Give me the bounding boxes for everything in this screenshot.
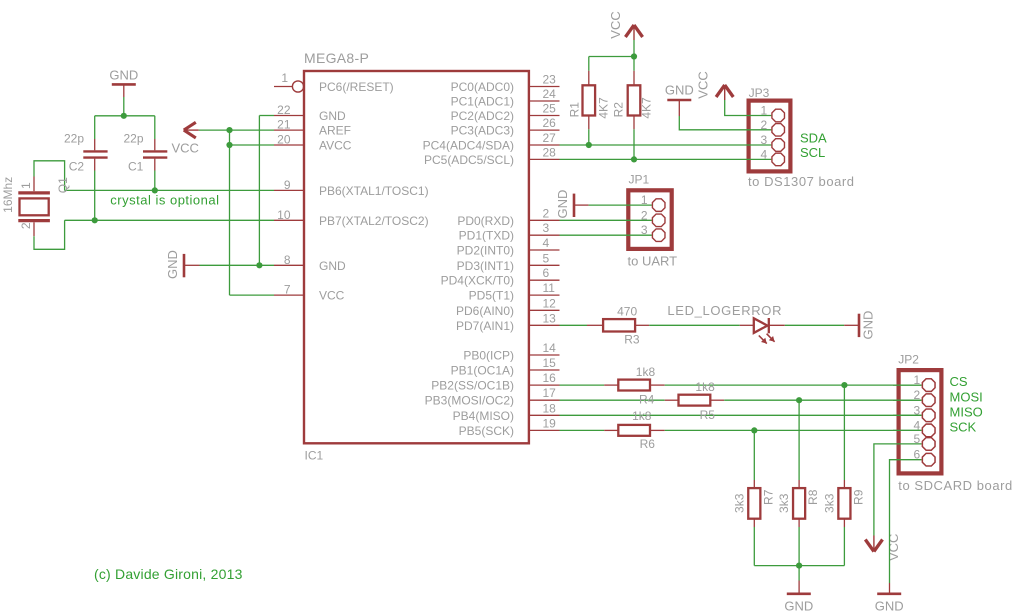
svg-text:11: 11 [543, 281, 556, 295]
svg-text:13: 13 [543, 311, 557, 325]
svg-text:VCC: VCC [886, 534, 901, 561]
svg-text:PB7(XTAL2/TOSC2): PB7(XTAL2/TOSC2) [319, 214, 429, 228]
svg-text:PD0(RXD): PD0(RXD) [457, 214, 514, 228]
svg-text:R1: R1 [568, 102, 582, 118]
svg-text:470: 470 [617, 305, 637, 319]
svg-text:R6: R6 [640, 437, 656, 451]
svg-text:VCC: VCC [608, 11, 623, 38]
svg-text:1: 1 [761, 104, 768, 118]
svg-text:22: 22 [277, 103, 291, 117]
svg-text:22p: 22p [64, 132, 84, 146]
svg-text:R2: R2 [611, 102, 625, 118]
svg-text:PD3(INT1): PD3(INT1) [457, 259, 514, 273]
svg-text:16: 16 [543, 371, 557, 385]
svg-text:3k3: 3k3 [732, 493, 746, 513]
svg-text:1: 1 [914, 373, 921, 387]
svg-text:C2: C2 [69, 160, 85, 174]
svg-text:1k8: 1k8 [695, 380, 715, 394]
svg-text:PB0(ICP): PB0(ICP) [463, 349, 514, 363]
svg-text:R7: R7 [761, 489, 775, 505]
svg-text:1: 1 [281, 71, 288, 85]
svg-text:18: 18 [543, 401, 557, 415]
svg-text:5: 5 [543, 251, 550, 265]
svg-text:R9: R9 [852, 489, 866, 505]
svg-text:GND: GND [319, 259, 346, 273]
svg-text:PB6(XTAL1/TOSC1): PB6(XTAL1/TOSC1) [319, 184, 429, 198]
svg-text:GND: GND [861, 311, 876, 340]
svg-text:(c) Davide Gironi, 2013: (c) Davide Gironi, 2013 [94, 566, 243, 582]
svg-text:R3: R3 [624, 333, 640, 347]
svg-text:PC3(ADC3): PC3(ADC3) [451, 124, 514, 138]
svg-text:SDA: SDA [800, 130, 827, 145]
svg-text:R8: R8 [806, 489, 820, 505]
svg-text:9: 9 [284, 178, 291, 192]
svg-text:PB2(SS/OC1B): PB2(SS/OC1B) [431, 379, 514, 393]
svg-text:R4: R4 [639, 393, 655, 407]
svg-text:to DS1307 board: to DS1307 board [748, 174, 855, 189]
svg-text:PD7(AIN1): PD7(AIN1) [456, 319, 514, 333]
svg-text:GND: GND [665, 83, 694, 98]
svg-text:crystal is optional: crystal is optional [110, 193, 219, 208]
svg-text:2: 2 [19, 222, 33, 229]
svg-text:22p: 22p [124, 132, 144, 146]
svg-text:10: 10 [277, 208, 291, 222]
svg-text:23: 23 [543, 73, 557, 87]
svg-text:8: 8 [284, 253, 291, 267]
svg-text:3: 3 [761, 133, 768, 147]
svg-text:1k8: 1k8 [636, 365, 656, 379]
svg-text:GND: GND [319, 109, 346, 123]
svg-text:to UART: to UART [628, 254, 678, 269]
svg-text:1: 1 [19, 182, 33, 189]
svg-text:PC2(ADC2): PC2(ADC2) [451, 109, 514, 123]
svg-text:4: 4 [761, 147, 768, 161]
svg-text:GND: GND [875, 598, 904, 613]
svg-text:LED_LOGERROR: LED_LOGERROR [667, 303, 782, 318]
svg-text:16Mhz: 16Mhz [1, 177, 15, 213]
svg-text:AREF: AREF [319, 124, 351, 138]
svg-text:7: 7 [284, 283, 291, 297]
svg-text:PD5(T1): PD5(T1) [469, 289, 514, 303]
svg-text:SCL: SCL [800, 145, 825, 160]
svg-text:20: 20 [277, 133, 291, 147]
svg-text:15: 15 [543, 356, 557, 370]
svg-text:SCK: SCK [950, 420, 977, 435]
svg-text:PD2(INT0): PD2(INT0) [457, 244, 514, 258]
svg-text:2: 2 [543, 206, 550, 220]
svg-text:MISO: MISO [950, 404, 983, 419]
svg-text:PB5(SCK): PB5(SCK) [459, 424, 514, 438]
svg-text:3: 3 [641, 223, 648, 237]
svg-text:GND: GND [109, 68, 138, 83]
svg-text:2: 2 [761, 118, 768, 132]
svg-text:GND: GND [555, 190, 570, 219]
svg-text:PC5(ADC5/SCL): PC5(ADC5/SCL) [424, 153, 514, 167]
svg-text:PB3(MOSI/OC2): PB3(MOSI/OC2) [425, 394, 514, 408]
svg-text:PC0(ADC0): PC0(ADC0) [451, 80, 514, 94]
svg-text:CS: CS [950, 374, 968, 389]
svg-text:4K7: 4K7 [640, 97, 654, 119]
svg-text:IC1: IC1 [305, 449, 324, 463]
svg-text:2: 2 [641, 208, 648, 222]
svg-text:PC6(/RESET): PC6(/RESET) [319, 80, 394, 94]
svg-text:PC1(ADC1): PC1(ADC1) [451, 95, 514, 109]
svg-text:28: 28 [543, 145, 557, 159]
svg-text:Q1: Q1 [56, 177, 70, 193]
svg-text:12: 12 [543, 296, 557, 310]
svg-text:3k3: 3k3 [777, 493, 791, 513]
svg-text:AVCC: AVCC [319, 139, 352, 153]
svg-text:3: 3 [543, 221, 550, 235]
svg-text:4K7: 4K7 [597, 97, 611, 119]
svg-text:R5: R5 [700, 408, 716, 422]
svg-text:MEGA8-P: MEGA8-P [304, 50, 369, 66]
svg-text:JP3: JP3 [749, 86, 770, 100]
svg-text:24: 24 [543, 87, 557, 101]
svg-text:6: 6 [543, 266, 550, 280]
svg-text:1k8: 1k8 [632, 409, 652, 423]
svg-text:3: 3 [914, 403, 921, 417]
svg-text:VCC: VCC [319, 289, 345, 303]
svg-text:PB4(MISO): PB4(MISO) [453, 409, 514, 423]
svg-text:GND: GND [165, 250, 180, 279]
svg-text:to SDCARD board: to SDCARD board [898, 478, 1012, 493]
svg-text:4: 4 [543, 236, 550, 250]
svg-text:JP1: JP1 [629, 173, 650, 187]
svg-text:25: 25 [543, 102, 557, 116]
svg-text:PD4(XCK/T0): PD4(XCK/T0) [441, 274, 514, 288]
svg-text:14: 14 [543, 341, 557, 355]
svg-text:PD1(TXD): PD1(TXD) [459, 229, 514, 243]
svg-text:PD6(AIN0): PD6(AIN0) [456, 304, 514, 318]
svg-text:PB1(OC1A): PB1(OC1A) [451, 364, 514, 378]
svg-text:26: 26 [543, 116, 557, 130]
svg-text:3k3: 3k3 [823, 493, 837, 513]
svg-text:21: 21 [277, 118, 291, 132]
svg-text:2: 2 [914, 388, 921, 402]
svg-text:PC4(ADC4/SDA): PC4(ADC4/SDA) [423, 139, 514, 153]
svg-text:17: 17 [543, 386, 557, 400]
svg-text:19: 19 [543, 416, 557, 430]
svg-text:1: 1 [641, 193, 648, 207]
svg-text:C1: C1 [128, 160, 144, 174]
svg-text:MOSI: MOSI [950, 389, 983, 404]
svg-text:VCC: VCC [695, 71, 710, 98]
svg-text:27: 27 [543, 131, 557, 145]
svg-text:VCC: VCC [172, 141, 199, 156]
svg-text:4: 4 [914, 418, 921, 432]
svg-text:GND: GND [784, 598, 813, 613]
svg-text:JP2: JP2 [898, 353, 919, 367]
